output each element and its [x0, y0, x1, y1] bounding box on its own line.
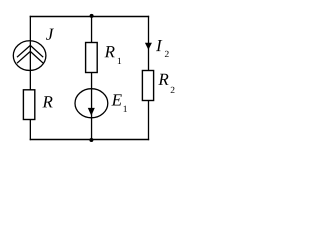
wire middle branch	[91, 17, 93, 140]
resistor R	[23, 90, 34, 120]
label R2	[158, 74, 174, 93]
junction node top	[90, 14, 94, 18]
label I2	[156, 40, 169, 57]
resistor R2	[142, 71, 153, 101]
resistor R1	[86, 43, 98, 73]
current arrow I2	[145, 43, 152, 50]
wire right branch	[148, 16, 150, 140]
EMF source E1	[75, 89, 108, 118]
label E1	[111, 94, 126, 112]
wire top	[30, 16, 149, 18]
junction node bottom	[89, 138, 93, 142]
label R	[42, 96, 52, 107]
current source J	[13, 41, 46, 71]
label R1	[105, 46, 122, 64]
wire left branch	[29, 16, 31, 140]
label J	[46, 29, 54, 40]
wire bottom	[30, 139, 149, 141]
